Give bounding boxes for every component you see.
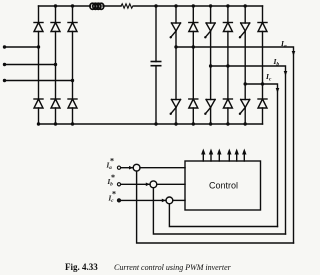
- wire reference input a: [120, 167, 133, 169]
- diode D1: [34, 23, 43, 32]
- svg-text:Ia: Ia: [280, 39, 287, 50]
- terminal ref a: [117, 166, 120, 169]
- node bottom rail leg2: [54, 122, 57, 125]
- diode DF1 top: [189, 23, 198, 32]
- summing junction S3: [166, 197, 173, 204]
- terminal ref b: [117, 183, 120, 186]
- svg-text:*: *: [110, 157, 114, 166]
- transistor Q6 bottom: [204, 100, 215, 115]
- node top rail inv leg4: [226, 4, 229, 7]
- inverter leg 2 vertical: [192, 6, 194, 124]
- wire reference input b: [120, 183, 150, 185]
- node bottom rail inv leg1: [174, 122, 177, 125]
- svg-text:Current control using PWM inve: Current control using PWM inverter: [114, 263, 232, 272]
- resistor R: [121, 4, 133, 8]
- gate drive arrows: [201, 149, 246, 162]
- diode D4: [34, 99, 43, 108]
- rectifier leg 1 vertical: [38, 6, 40, 124]
- diode DF6 bottom: [223, 99, 232, 108]
- summing junction S2: [150, 181, 157, 188]
- wire phase output a: [176, 47, 294, 243]
- terminal phase C: [3, 79, 6, 82]
- diode D3: [68, 23, 77, 32]
- wire feedback loop c: [169, 204, 277, 227]
- node phase B junction: [54, 63, 57, 66]
- node phase b leg4: [226, 64, 229, 67]
- diode DF4 bottom: [189, 99, 198, 108]
- node cap top: [154, 4, 157, 7]
- terminal phase B: [3, 63, 6, 66]
- wire S3 to control: [173, 199, 185, 201]
- wire top DC rail right section: [134, 5, 263, 7]
- svg-text:*: *: [111, 173, 115, 182]
- inverter leg 1 vertical: [175, 6, 177, 124]
- node bottom rail inv leg5: [244, 122, 247, 125]
- transistor Q4 bottom: [170, 100, 181, 115]
- node bottom rail inv leg3: [209, 122, 212, 125]
- node phase A junction: [37, 45, 40, 48]
- diode DF3 top: [223, 23, 232, 32]
- node phase C junction: [71, 79, 74, 82]
- wire bottom DC rail: [39, 123, 263, 125]
- diode DF5 top: [258, 23, 267, 32]
- wire reference input c: [120, 199, 166, 201]
- rectifier leg 3 vertical: [72, 6, 74, 124]
- wire phase input B: [5, 64, 56, 66]
- node cap bottom: [154, 122, 157, 125]
- capacitor C plates: [151, 62, 160, 66]
- node top rail inv leg5: [244, 4, 247, 7]
- node bottom rail leg3: [71, 122, 74, 125]
- inverter leg 5 vertical: [244, 6, 246, 124]
- arrow current Ic: [276, 88, 280, 93]
- wire phase input A: [5, 46, 39, 48]
- node bottom rail leg1: [37, 122, 40, 125]
- svg-text:Fig. 4.33: Fig. 4.33: [65, 262, 98, 272]
- inverter leg 3 vertical: [210, 6, 212, 124]
- node top rail inv leg1: [174, 4, 177, 7]
- svg-text:*: *: [112, 190, 116, 199]
- wire between inductor and resistor: [103, 5, 121, 7]
- inductor L (DC link choke): [90, 3, 104, 9]
- svg-text:Control: Control: [209, 181, 238, 191]
- wire S1 to control: [140, 167, 185, 169]
- transistor Q5 top: [239, 23, 250, 38]
- inverter leg 6 vertical: [262, 6, 264, 124]
- arrow current Ia: [292, 51, 296, 56]
- wire phase output c: [245, 84, 277, 227]
- transistor Q3 top: [204, 23, 215, 38]
- node top rail inv leg3: [209, 4, 212, 7]
- node phase a leg2: [192, 45, 195, 48]
- control block: [185, 161, 261, 210]
- rectifier leg 2 vertical: [55, 6, 57, 124]
- diode D5: [51, 99, 60, 108]
- node phase c leg6: [261, 82, 264, 85]
- terminal phase A: [3, 45, 6, 48]
- node top rail leg3: [71, 4, 74, 7]
- diode D2: [51, 23, 60, 32]
- wire feedback loop b: [153, 188, 285, 234]
- arrow into S3: [162, 199, 166, 203]
- wire top DC rail left section: [39, 5, 91, 7]
- arrow current Ib: [284, 71, 288, 76]
- wire feedback loop a: [137, 171, 294, 243]
- arrow into S2: [146, 183, 150, 187]
- transistor Q1 top: [170, 23, 181, 38]
- diode DF2 bottom: [258, 99, 267, 108]
- wire S2 to control: [157, 183, 185, 185]
- diode D6: [68, 99, 77, 108]
- node phase c leg5: [244, 82, 247, 85]
- node phase a leg1: [174, 45, 177, 48]
- node top rail leg2: [54, 4, 57, 7]
- transistor Q2 bottom: [239, 100, 250, 115]
- node bottom rail inv leg4: [226, 122, 229, 125]
- summing junction S1: [133, 164, 140, 171]
- arrow into S1: [129, 166, 133, 170]
- terminal ref c: [117, 199, 120, 202]
- wire phase input C: [5, 80, 73, 82]
- inverter leg 4 vertical: [227, 6, 229, 124]
- node phase b leg3: [209, 64, 212, 67]
- svg-text:Ic: Ic: [265, 72, 272, 83]
- node top rail inv leg2: [192, 4, 195, 7]
- capacitor C leads: [155, 6, 157, 124]
- node bottom rail inv leg2: [192, 122, 195, 125]
- wire phase output b: [211, 66, 286, 234]
